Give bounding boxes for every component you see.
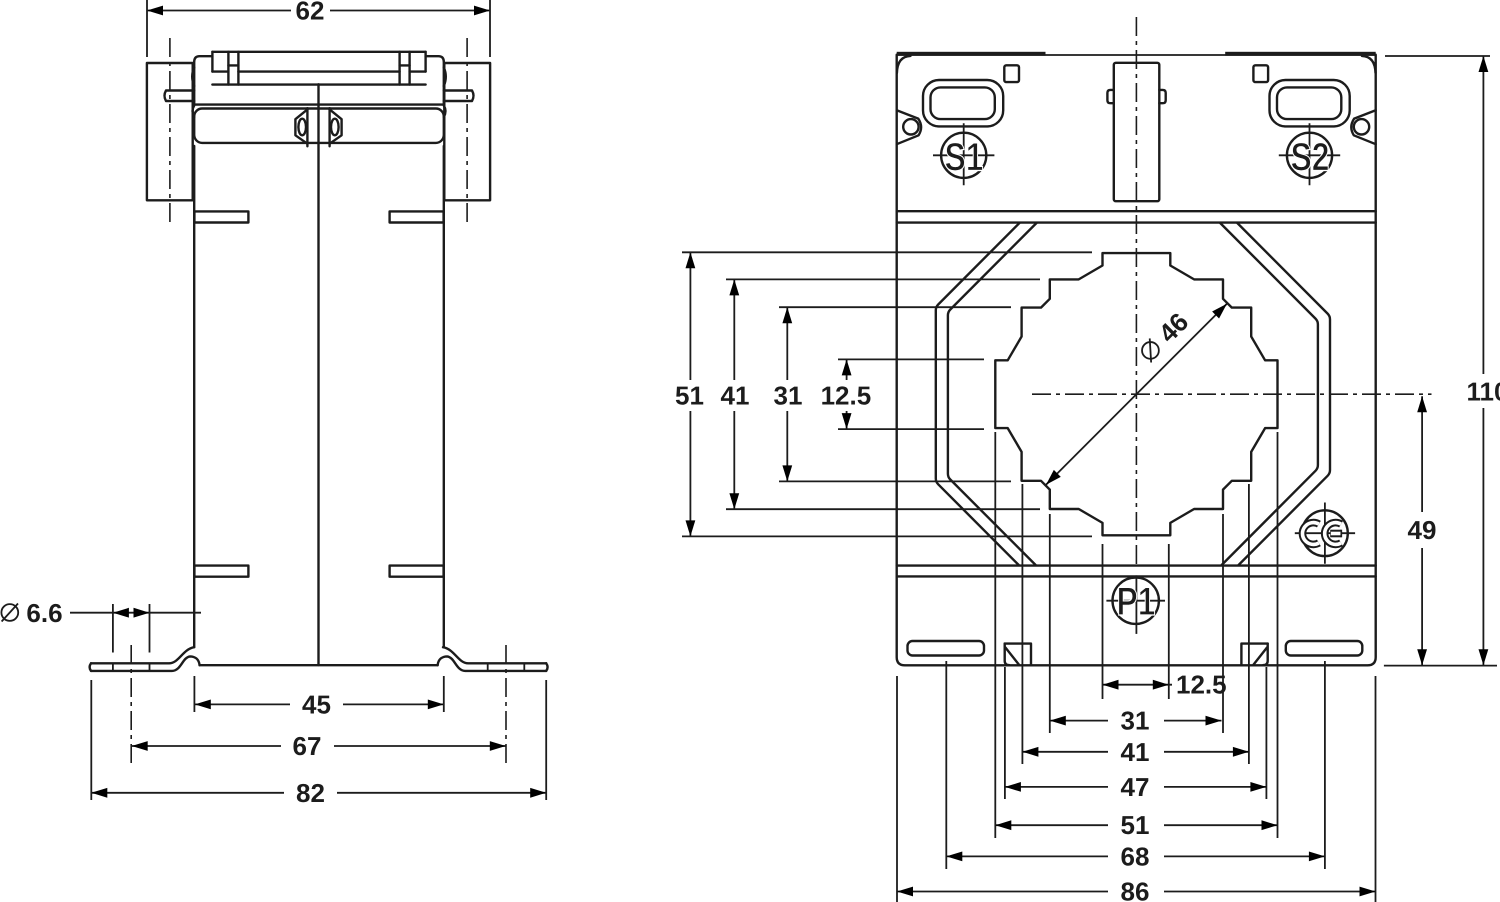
octagonal boss outer right <box>1237 223 1330 565</box>
CE mark circle <box>1302 510 1348 556</box>
svg-text:86: 86 <box>1121 877 1150 902</box>
dimension 62 (overall width, side view) <box>147 0 490 57</box>
octagonal boss inner right <box>1220 223 1318 565</box>
foot hole edges left <box>113 663 150 671</box>
svg-text:110: 110 <box>1467 376 1500 406</box>
front body outline <box>897 55 1376 666</box>
terminal S2 crosshair <box>1279 123 1340 185</box>
body column left edge <box>193 146 195 647</box>
clamp block side lug right <box>1159 90 1165 103</box>
cap side screw tab left <box>165 68 195 118</box>
bottom vent slot left <box>908 641 985 656</box>
foot notch left <box>1005 644 1031 666</box>
foot notch right <box>1241 644 1267 666</box>
P1 crosshair <box>1106 600 1165 602</box>
bottom band line lower <box>897 575 1376 577</box>
latch clip right ellipse <box>331 119 339 136</box>
dimension 51 vertical <box>675 252 1092 536</box>
dimension 47 bottom <box>1005 772 1267 802</box>
foot hole centerline left <box>130 645 132 763</box>
svg-text:51: 51 <box>675 381 704 411</box>
body split centerline <box>317 84 319 665</box>
dimension 68 bottom <box>946 841 1325 871</box>
latch clip left <box>295 109 307 143</box>
svg-text:49: 49 <box>1408 515 1437 545</box>
extension lines 31 bottom <box>1050 514 1223 733</box>
coil band (upper body) <box>194 109 444 143</box>
vertical centerline <box>1135 17 1137 568</box>
diameter 46 label <box>1134 307 1194 367</box>
extension lines 12.5 bottom <box>1103 544 1169 699</box>
front body top edge thick left segment <box>897 52 1046 56</box>
separator line lower <box>897 221 1376 223</box>
svg-text:82: 82 <box>296 778 325 808</box>
CE mark crosshair <box>1295 503 1355 564</box>
dimension 86 bottom <box>897 877 1376 902</box>
P1 circle <box>1113 578 1159 624</box>
small square right <box>1253 65 1268 82</box>
bottom band line upper <box>897 564 1376 566</box>
svg-text:47: 47 <box>1121 772 1150 802</box>
terminal slot S2 inner <box>1277 87 1341 119</box>
diameter 46 dimension diagonal <box>1043 300 1231 488</box>
right edge bump with screw hole <box>1351 110 1375 144</box>
horizontal centerline <box>1032 393 1432 395</box>
dimension 12.5 bottom <box>1103 670 1227 700</box>
terminal slot S1 outer <box>923 80 1003 126</box>
extension lines 68 bottom <box>946 661 1325 869</box>
foot hole edges right <box>488 663 525 671</box>
svg-text:51: 51 <box>1121 810 1150 840</box>
svg-text:12.5: 12.5 <box>1176 670 1227 700</box>
body slot notch lower-left <box>194 566 248 577</box>
right mounting plate (edge view) <box>444 63 490 200</box>
latch clip left ellipse <box>298 119 306 136</box>
terminal S1 circle <box>941 133 986 178</box>
dimension 45 (between feet) <box>194 676 443 719</box>
mounting foot right <box>438 647 548 671</box>
left mounting plate (edge view) <box>147 63 193 200</box>
extension lines 86 bottom <box>897 676 1376 902</box>
svg-text:67: 67 <box>293 731 322 761</box>
foot hole centerline right <box>505 645 507 763</box>
dimension 41 bottom <box>1022 737 1249 767</box>
octagonal boss inner left <box>948 223 1037 565</box>
dimension 41 vertical <box>721 279 1040 509</box>
dimension 51 bottom <box>995 810 1277 840</box>
svg-text:P1: P1 <box>1117 580 1156 624</box>
dimension 110 right <box>1384 56 1500 666</box>
CE mark letters <box>1302 523 1341 545</box>
dimension 49 right <box>1408 396 1437 665</box>
terminal S2 circle <box>1287 133 1332 178</box>
terminal slot S1 inner <box>931 87 995 119</box>
body slot notch upper-right <box>390 211 444 222</box>
left edge bump with screw hole <box>897 110 921 144</box>
cap side screw tab right <box>444 68 474 118</box>
terminal S1 crosshair <box>933 123 994 185</box>
dimension 82 (foot overall) <box>91 680 546 808</box>
extension lines 41 bottom <box>1022 484 1249 764</box>
svg-text:41: 41 <box>1121 737 1150 767</box>
front body top edge thin <box>897 54 1376 56</box>
svg-text:12.5: 12.5 <box>821 381 872 411</box>
dimension 12.5 vertical <box>821 359 984 429</box>
serrated core window <box>995 253 1277 535</box>
separator line upper <box>897 210 1376 212</box>
terminal slot S2 outer <box>1270 80 1350 126</box>
plate centerline right <box>466 38 468 225</box>
vertical centerline through P1 <box>1135 575 1137 634</box>
svg-text:41: 41 <box>721 381 750 411</box>
body slot notch lower-right <box>390 566 444 577</box>
svg-text:31: 31 <box>1121 706 1150 736</box>
terminal cap outline <box>194 52 444 105</box>
bottom vent slot right <box>1286 641 1363 656</box>
dimension 31 bottom <box>1050 706 1222 736</box>
dimension 67 (hole centers) <box>132 731 506 761</box>
plate centerline left <box>169 38 171 225</box>
svg-text:S1: S1 <box>945 135 984 179</box>
top-right corner fillet <box>1362 56 1376 73</box>
clamp block side lug left <box>1107 90 1113 103</box>
svg-text:S2: S2 <box>1291 135 1330 179</box>
small square left <box>1004 65 1019 82</box>
mounting foot left <box>90 647 200 671</box>
body base line between feet <box>200 664 438 666</box>
dimension 31 vertical <box>774 307 1011 481</box>
extension lines 51 bottom <box>995 432 1277 838</box>
svg-text:31: 31 <box>774 381 803 411</box>
svg-text:6.6: 6.6 <box>26 598 62 628</box>
top-left corner fillet <box>897 56 911 73</box>
body slot notch upper-left <box>194 211 248 222</box>
dimension hole 6.6 <box>1 598 201 653</box>
primary clamp block <box>1114 63 1160 201</box>
svg-text:45: 45 <box>302 689 331 719</box>
octagonal boss outer left <box>936 223 1020 565</box>
front body top edge thick right segment <box>1225 52 1376 56</box>
body column right edge <box>443 146 445 647</box>
svg-text:62: 62 <box>296 0 325 26</box>
extension lines 47 bottom <box>1005 667 1267 799</box>
svg-text:68: 68 <box>1121 841 1150 871</box>
latch clip right <box>330 109 342 143</box>
